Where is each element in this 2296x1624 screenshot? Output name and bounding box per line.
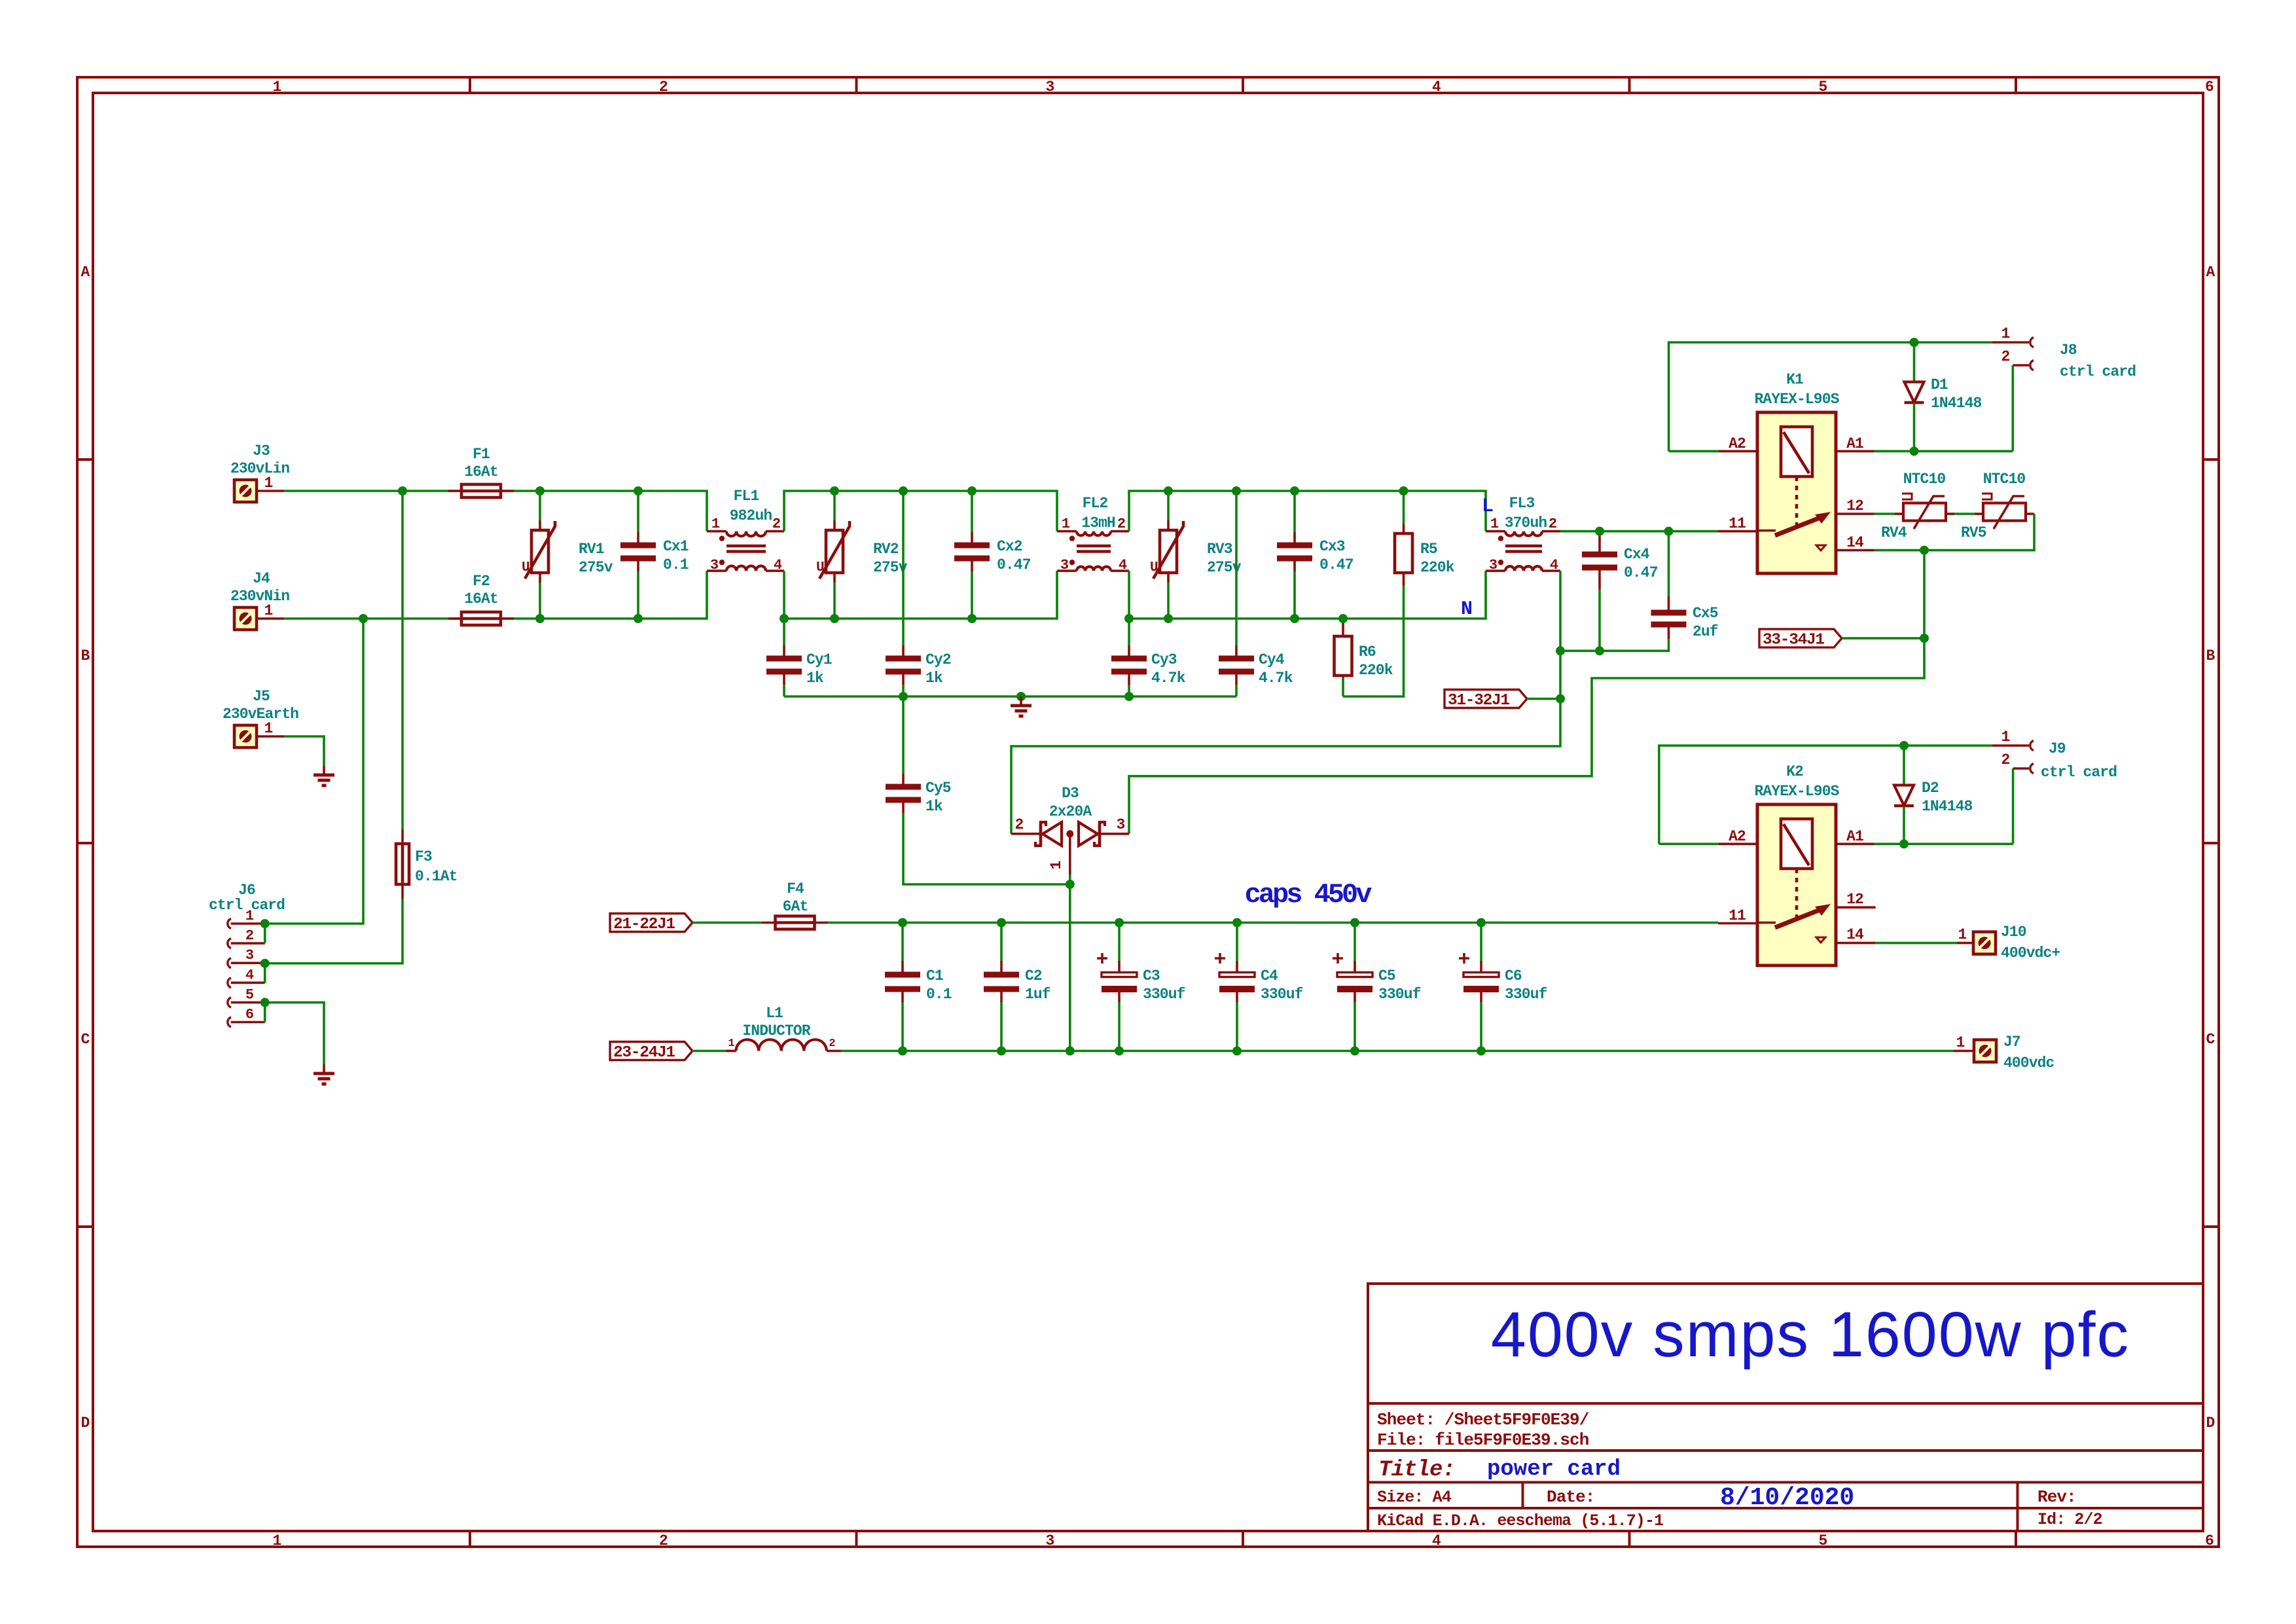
svg-text:230vLin: 230vLin [230,460,289,477]
node Cy4 top on L [1232,486,1241,496]
svg-text:16At: 16At [464,463,498,480]
K1 pin A1 [1836,435,1874,452]
node Cx1 top [634,486,643,496]
svg-text:1N4148: 1N4148 [1922,798,1973,815]
svg-text:1: 1 [1958,926,1967,943]
svg-text:6: 6 [245,1007,253,1023]
svg-text:F1: F1 [473,446,490,463]
svg-text:Date:: Date: [1547,1487,1595,1507]
node Cx1 bottom [634,614,643,623]
capacitor Cy3 4.7k (N to earth) [1111,619,1186,696]
svg-text:4: 4 [245,967,254,983]
svg-text:C3: C3 [1143,967,1160,984]
connector J9 pin1 [1992,729,2034,751]
svg-text:F2: F2 [473,573,490,590]
svg-text:5: 5 [1819,1532,1827,1549]
svg-text:3: 3 [710,557,719,573]
svg-text:400vdc+: 400vdc+ [2001,945,2060,962]
K1 pin 12 [1836,497,1874,514]
node RV3 bottom [1164,614,1173,623]
wire 31-32J1 to N-prime [1527,698,1560,700]
svg-text:A2: A2 [1729,828,1746,845]
svg-text:21-22J1: 21-22J1 [613,916,675,933]
svg-text:U: U [816,560,824,575]
svg-text:2: 2 [659,1532,668,1549]
svg-text:11: 11 [1729,907,1746,924]
svg-text:4: 4 [1432,79,1441,96]
svg-text:1: 1 [1956,1034,1965,1051]
svg-text:0.1At: 0.1At [415,868,457,885]
svg-text:1: 1 [273,1532,281,1549]
svg-text:6: 6 [2205,79,2214,96]
K2 pin 11 [1718,907,1757,924]
wire K2 A1 right [1874,843,2013,846]
svg-text:J10: J10 [2001,924,2026,941]
svg-text:N: N [1461,598,1473,621]
svg-text:Id: 2/2: Id: 2/2 [2037,1510,2102,1529]
svg-text:A1: A1 [1846,828,1863,845]
node Cy1/FL1 pin4 on N [780,614,789,623]
svg-text:B: B [2206,647,2215,664]
wire F3 to J6 pin3 [265,899,403,964]
frame row tick right [2203,842,2219,844]
capacitor Cx5 2uf [1560,532,1718,651]
svg-text:220k: 220k [1420,559,1455,576]
node C6 top [1477,918,1486,928]
svg-text:J8: J8 [2060,342,2077,359]
wire J5 to ground [284,736,324,766]
svg-text:C: C [2206,1031,2215,1048]
varistor RV2 275v [816,491,908,619]
K2 pin A2 [1719,828,1757,845]
node R6 top on N [1338,614,1348,623]
svg-text:330uf: 330uf [1261,986,1303,1003]
svg-text:6At: 6At [783,898,808,915]
svg-text:2x20A: 2x20A [1049,803,1092,820]
svg-text:400v smps 1600w pfc: 400v smps 1600w pfc [1491,1299,2130,1370]
frame column tick bottom [2015,1531,2017,1547]
capacitor Cy4 4.7k (L to earth) [1219,491,1293,696]
svg-text:982uh: 982uh [730,507,772,524]
svg-text:3: 3 [1046,79,1054,96]
svg-text:File: file5F9F0E39.sch: File: file5F9F0E39.sch [1377,1430,1589,1450]
svg-text:330uf: 330uf [1378,986,1421,1003]
svg-text:U: U [522,560,529,575]
svg-text:A: A [81,264,90,281]
wire 33-34J1 tip [1842,637,1924,640]
wire A2 feed [1669,450,1719,452]
wire L-prime FL3 pin2 to K1 pin11 [1560,530,1718,533]
svg-text:5: 5 [1819,79,1827,96]
wire A1 to D1 and right riser [1874,450,2013,452]
svg-text:C6: C6 [1505,967,1522,984]
svg-text:33-34J1: 33-34J1 [1763,632,1824,649]
svg-text:1k: 1k [925,798,943,815]
wire J6 pin5 to ground [265,1002,324,1064]
svg-text:3: 3 [1046,1532,1054,1549]
K1 pin 14 [1836,534,1874,551]
frame column tick [469,77,471,93]
node C2 top [997,918,1006,928]
wire N from J4 to FL1 pin3 [284,571,707,619]
svg-text:RV4: RV4 [1881,524,1907,541]
svg-text:Size: A4: Size: A4 [1377,1488,1452,1507]
frame column tick [2015,77,2017,93]
svg-text:D2: D2 [1922,780,1939,797]
svg-text:J7: J7 [2003,1034,2020,1051]
svg-text:230vNin: 230vNin [230,588,289,605]
frame row tick left [77,1225,93,1228]
node Cy2 on earth rail [899,692,908,701]
wire +rail F4 to K2 pin11 [828,922,1719,924]
K2 pin 14 [1836,926,1876,943]
svg-text:220k: 220k [1359,662,1393,679]
svg-text:16At: 16At [464,590,498,607]
svg-text:NTC10: NTC10 [1903,471,1946,488]
svg-text:RV1: RV1 [579,541,604,558]
svg-text:1k: 1k [806,670,824,687]
node pin14 junction [1920,546,1929,555]
svg-text:FL2: FL2 [1083,495,1108,512]
relay K2 RAYEX-L90S [1754,763,1839,965]
capacitor C2 1uf [984,923,1050,1051]
connector J5 230vEarth [223,688,298,748]
K1 pin 11 [1718,515,1757,532]
ground symbol below J5 [314,766,334,785]
svg-text:Cx1: Cx1 [663,538,689,555]
svg-text:Sheet: /Sheet5F9F0E39/: Sheet: /Sheet5F9F0E39/ [1377,1410,1589,1430]
svg-text:0.1: 0.1 [663,556,689,573]
svg-text:1uf: 1uf [1025,986,1050,1003]
node ground on earth rail [1016,692,1026,701]
frame row tick left [77,842,93,844]
capacitor Cx1 0.1 [620,491,689,619]
capacitor Cy2 1k (L to earth) [886,491,951,696]
svg-text:D: D [81,1415,90,1432]
svg-text:1: 1 [1490,516,1499,532]
node D3 pin1 junction [1066,880,1075,889]
svg-text:23-24J1: 23-24J1 [613,1044,675,1062]
svg-text:RV3: RV3 [1207,541,1232,558]
thermistor RV4 NTC10 [1881,471,1954,541]
svg-text:31-32J1: 31-32J1 [1448,692,1509,710]
node Cy3/FL2 pin4 on N [1124,614,1134,623]
connector J3 230vLin [230,442,289,502]
svg-text:A2: A2 [1729,435,1746,452]
svg-text:J5: J5 [253,688,270,705]
frame row tick left [77,458,93,461]
frame column tick [1242,77,1244,93]
node C5 bottom [1350,1047,1359,1056]
common-mode choke FL2 13mH [1057,495,1129,573]
svg-text:A: A [2206,264,2215,281]
node C1 bottom [898,1047,907,1056]
svg-text:3: 3 [1117,816,1125,833]
wire J9 pin1 net [1659,746,1992,844]
wire J6 pin1-pin2 tie [264,924,266,943]
wire D3 node down to 0v rail [1069,884,1071,1051]
svg-text:2: 2 [772,516,780,532]
svg-text:4.7k: 4.7k [1151,670,1186,687]
capacitor C4 330uf [1215,923,1303,1051]
svg-text:RV5: RV5 [1961,524,1986,541]
svg-text:3: 3 [1489,557,1498,573]
node RV2 bottom [830,614,839,623]
frame column tick bottom [1628,1531,1631,1547]
svg-text:D1: D1 [1931,376,1948,393]
wire RV5 return to pin14 net [1874,514,2035,550]
svg-text:L1: L1 [766,1005,783,1022]
ground symbol on earth rail [1011,696,1031,716]
dual diode D3 2x20A [1011,785,1129,875]
wire N-prime FL3 pin4 down (31-32J1 net) [1011,571,1560,834]
svg-text:5: 5 [245,986,254,1003]
svg-text:11: 11 [1729,515,1746,532]
svg-text:0.47: 0.47 [997,556,1031,573]
svg-text:C: C [81,1031,90,1048]
wire J8 pin1 net across top [1669,342,1992,451]
svg-text:0.1: 0.1 [926,986,952,1003]
fuse F1 16At [448,446,514,497]
svg-text:F3: F3 [415,848,432,865]
svg-text:J4: J4 [253,570,270,587]
svg-text:R5: R5 [1420,541,1437,558]
connector J10 400vdc+ [1957,924,2060,962]
svg-text:NTC10: NTC10 [1983,471,2026,488]
wire J3-branch down to F3 [401,491,404,829]
node Cx5 top [1664,527,1674,536]
svg-text:1k: 1k [925,670,943,687]
svg-text:Cy3: Cy3 [1151,651,1177,668]
svg-text:R6: R6 [1359,643,1376,660]
svg-text:13mH: 13mH [1081,514,1115,532]
svg-text:2: 2 [2001,751,2010,768]
node R5 top [1399,486,1408,496]
svg-text:0.47: 0.47 [1319,556,1354,573]
capacitor C5 330uf [1333,923,1421,1051]
label 21-22J1 [610,914,692,934]
common-mode choke FL1 982uh [707,488,784,573]
svg-text:KiCad E.D.A. eeschema (5.1.7): KiCad E.D.A. eeschema (5.1.7)-1 [1377,1511,1663,1530]
node Cy2 top on L [899,486,908,496]
node D3 on 0v rail [1066,1047,1075,1056]
label 23-24J1 [610,1042,692,1062]
connector J8 pin2 [2001,348,2034,370]
connector J6 ctrl card [209,882,285,1027]
fuse F4 6At [762,880,828,929]
K1 pin A2 [1719,435,1757,452]
svg-text:L: L [1482,496,1494,518]
svg-text:D3: D3 [1062,785,1079,802]
wire J4-branch down to J6 pin1 [265,619,363,924]
svg-text:J9: J9 [2049,740,2066,757]
svg-text:1N4148: 1N4148 [1931,395,1982,412]
svg-text:RV2: RV2 [873,541,899,558]
frame column tick bottom [469,1531,471,1547]
wire right riser to J8 pin2 [2012,365,2015,451]
wire J6 pin5-pin6 tie [264,1002,266,1022]
connector J4 230vNin [230,570,289,630]
node Cx4/Cx5 bottom on N-prime [1556,646,1565,655]
svg-text:3: 3 [1060,557,1069,573]
svg-text:1: 1 [1048,861,1065,869]
svg-text:4: 4 [1550,557,1558,573]
fuse F3 0.1At [396,829,457,899]
svg-text:FL1: FL1 [734,488,759,505]
svg-text:2: 2 [2001,348,2010,365]
wire L from J3 to FL1 pin1 [284,491,707,532]
svg-text:230vEarth: 230vEarth [223,706,298,723]
svg-text:RAYEX-L90S: RAYEX-L90S [1754,391,1839,408]
svg-text:Cy1: Cy1 [806,651,832,668]
resistor R6 220k [1335,621,1393,696]
svg-text:Title:: Title: [1378,1458,1455,1483]
wire RV4 to RV5 [1954,513,1975,515]
label 31-32J1 [1444,690,1527,710]
svg-text:caps 450v: caps 450v [1245,879,1372,911]
node Cy3 on earth rail [1124,692,1134,701]
wire K2 pin14 to J10 [1876,942,1957,945]
svg-text:U: U [1150,560,1158,575]
svg-text:Cy4: Cy4 [1259,651,1285,668]
wire K1 pin12 to RV4 [1874,513,1895,515]
svg-text:K1: K1 [1786,371,1803,388]
svg-text:D: D [2206,1415,2215,1432]
svg-text:330uf: 330uf [1143,986,1185,1003]
svg-text:2: 2 [829,1038,835,1050]
diode D2 1N4148 [1894,746,1973,844]
wire N FL2 pin4 down and to FL3 pin3 [1129,571,1486,619]
capacitor Cy5 1k [886,696,1070,884]
node C4 top [1232,918,1242,928]
svg-text:4.7k: 4.7k [1259,670,1293,687]
svg-text:0.47: 0.47 [1624,564,1658,581]
node junction N at x555 [359,614,368,623]
node J6 pin5 junction [260,998,270,1007]
svg-text:1: 1 [2001,325,2010,342]
svg-text:330uf: 330uf [1505,986,1547,1003]
node RV1 top [535,486,545,496]
relay K1 RAYEX-L90S [1754,371,1839,573]
connector J9 pin2 [2001,751,2034,774]
varistor RV1 275v [522,491,613,619]
svg-text:12: 12 [1846,497,1863,514]
node D1 anode top [1910,338,1919,347]
node RV3 top [1164,486,1173,496]
svg-text:2: 2 [1015,816,1024,833]
node 33-34J1 junction [1920,634,1929,643]
svg-text:Cx4: Cx4 [1624,546,1650,563]
node C2 bottom [997,1047,1006,1056]
frame column tick [855,77,858,93]
title block outline [1368,1284,2203,1531]
J8 labels [2060,342,2136,380]
node RV2 top [830,486,839,496]
svg-text:C2: C2 [1025,967,1042,984]
node Cx2 bottom [967,614,977,623]
node C1 top [898,918,907,928]
svg-text:2: 2 [1117,516,1125,532]
frame column tick bottom [855,1531,858,1547]
svg-text:K2: K2 [1786,763,1803,780]
common-mode choke FL3 370uh [1486,495,1560,573]
node C5 top [1350,918,1359,928]
capacitor Cx4 0.47 [1582,533,1658,651]
node Cx3 top [1290,486,1299,496]
resistor R5 220k [1343,491,1455,696]
varistor RV3 275v [1150,491,1242,619]
svg-text:1: 1 [273,79,281,96]
capacitor C6 330uf [1459,923,1547,1051]
node Cx3 bottom [1290,614,1299,623]
svg-text:12: 12 [1846,891,1863,908]
svg-text:C1: C1 [926,967,943,984]
node D1 cathode bottom [1910,446,1919,456]
svg-text:4: 4 [774,557,782,573]
fuse F2 16At [448,573,514,625]
diode D1 1N4148 [1905,342,1982,451]
wire L FL1 pin2 to FL2 pin1 [784,491,1057,532]
svg-text:Rev:: Rev: [2037,1487,2076,1507]
svg-text:275v: 275v [579,559,613,576]
wire 14-net down to 33-34J1 and D3 pin3 [1129,550,1924,834]
node C3 top [1115,918,1124,928]
node J6 pin1 junction [260,919,270,928]
svg-text:power card: power card [1487,1457,1621,1482]
wire J6 pin3-pin4 tie [264,964,266,983]
svg-text:8/10/2020: 8/10/2020 [1720,1484,1854,1512]
svg-text:4: 4 [1119,557,1127,573]
svg-text:ctrl card: ctrl card [2060,363,2136,380]
connector J8 pin1 [1992,325,2034,348]
svg-text:6: 6 [2205,1532,2214,1549]
label 33-34J1 [1759,629,1842,649]
svg-text:Cx2: Cx2 [997,538,1022,555]
wire 21-22J1 to F4 [692,922,762,924]
svg-text:C5: C5 [1378,967,1395,984]
frame row tick right [2203,458,2219,461]
svg-text:2uf: 2uf [1693,623,1718,640]
svg-text:Cy2: Cy2 [925,651,951,668]
svg-text:2: 2 [1549,516,1556,532]
capacitor Cx3 0.47 [1277,491,1354,619]
node C3 bottom [1115,1047,1124,1056]
capacitor C1 0.1 [885,923,952,1051]
node Cx2 top [967,486,977,496]
svg-text:J3: J3 [253,442,270,460]
svg-text:B: B [81,647,90,664]
wire K2 A2 feed [1659,843,1719,846]
svg-text:Cx3: Cx3 [1319,538,1345,555]
svg-text:ctrl card: ctrl card [2041,764,2117,781]
svg-text:Cy5: Cy5 [925,780,951,797]
svg-text:INDUCTOR: INDUCTOR [742,1022,810,1039]
svg-text:FL3: FL3 [1509,495,1535,512]
svg-text:2: 2 [245,928,253,944]
wire N FL1 pin4 down and to FL2 pin3 [784,571,1057,619]
wire 0v rail L1 to J7 [841,1050,1954,1053]
svg-text:3: 3 [245,947,254,964]
frame row tick right [2203,1225,2219,1228]
svg-text:1: 1 [711,516,720,532]
svg-text:F4: F4 [787,880,804,897]
node C4 bottom [1232,1047,1242,1056]
node RV1 bottom [535,614,545,623]
wire 23-24J1 to L1 [692,1050,726,1053]
wire L FL2 pin2 to FL3 pin1 [1129,491,1486,532]
svg-text:ctrl card: ctrl card [209,897,285,914]
frame column tick [1628,77,1631,93]
